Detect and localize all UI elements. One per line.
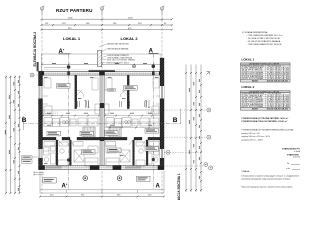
table LOKAL 2 xyxy=(241,90,291,110)
bottom dimension line xyxy=(39,195,165,198)
right dim arrow xyxy=(207,72,210,75)
top wall pier left corner xyxy=(39,71,45,75)
terrace label box L xyxy=(43,178,57,183)
svg-text:3,50 3,50 3,50: 3,50 3,50 3,50 xyxy=(267,68,290,70)
room label box 2.1 xyxy=(124,86,138,91)
room label box 1.5 xyxy=(82,150,96,155)
partition L2 bath b xyxy=(146,140,148,165)
wardrobe L1 xyxy=(74,146,98,162)
corner steps xyxy=(34,171,44,176)
porch dashed eave line xyxy=(41,69,161,71)
left grid bubble xyxy=(30,73,34,77)
bay dashed rows xyxy=(43,112,160,116)
interior clutter extra xyxy=(43,96,161,166)
downspout xyxy=(37,62,39,71)
svg-text:LOKAL 1: LOKAL 1 xyxy=(242,57,255,61)
drain circle xyxy=(132,65,135,68)
svg-text:OGRODZENIE WYS. 180cm: OGRODZENIE WYS. 180cm xyxy=(106,63,130,65)
right wall window 1 xyxy=(160,86,164,99)
hall clutter L2 xyxy=(106,78,159,97)
svg-text:poniżej 140 cm - 0%: poniżej 140 cm - 0% xyxy=(242,133,260,135)
partition L2 entry xyxy=(127,75,129,108)
top dimension line 1 xyxy=(41,17,173,20)
table LOKAL 1 xyxy=(241,63,291,83)
svg-text:RZUT PARTERU: RZUT PARTERU xyxy=(56,8,92,13)
axis dashed line 2 xyxy=(101,15,103,71)
right exterior wall xyxy=(160,71,164,170)
fence callout xyxy=(99,43,136,65)
stairs L2 xyxy=(109,127,121,137)
bottom wall section dot A' xyxy=(67,158,70,161)
svg-text:0.2 P1 HOL: 0.2 P1 HOL xyxy=(242,70,263,72)
grid flag axis 1 xyxy=(40,6,44,15)
bottom wall pier party L xyxy=(90,165,100,170)
svg-text:24,60 24,60 24,60: 24,60 24,60 24,60 xyxy=(267,102,290,104)
svg-text:7,20 7,20 7,20: 7,20 7,20 7,20 xyxy=(267,98,290,100)
right porch wall stub xyxy=(160,58,164,71)
axis dashed line 3 xyxy=(161,15,163,60)
bathroom fixtures L2 xyxy=(147,146,159,164)
terrace column R xyxy=(117,176,122,181)
bottom exterior wall window band xyxy=(39,165,165,170)
hall clutter L1 xyxy=(44,78,98,97)
interior hall line L2 xyxy=(104,109,160,111)
top wall joint A' xyxy=(67,71,70,75)
bottom wall sill bar L xyxy=(46,166,62,168)
door arrows L2 xyxy=(145,100,150,108)
terrace column L xyxy=(83,176,88,181)
top wall pier party xyxy=(99,71,105,75)
section line A' xyxy=(68,55,70,191)
svg-text:4,30 4,30 4,30: 4,30 4,30 4,30 xyxy=(267,78,290,80)
svg-text:5,10 5,10 5,10: 5,10 5,10 5,10 xyxy=(267,76,290,78)
room label box 1.3 xyxy=(80,131,94,136)
svg-text:powyżej 220 cm - 100%: powyżej 220 cm - 100% xyxy=(242,139,263,141)
svg-text:ELEWACJA BOCZNA 1: ELEWACJA BOCZNA 1 xyxy=(177,173,181,200)
wall note box xyxy=(104,89,116,92)
stairs L1 xyxy=(83,127,95,137)
svg-text:4,30 4,30 4,30: 4,30 4,30 4,30 xyxy=(267,106,290,108)
interior dim string L1 xyxy=(42,115,100,117)
partition L1 entry xyxy=(75,75,77,108)
axis dashed line 1 xyxy=(41,15,43,71)
interior hall line L1 xyxy=(43,109,101,111)
kitchen counter L2 xyxy=(106,118,159,127)
porch lintel bar xyxy=(89,70,116,72)
svg-text:LOKAL 2: LOKAL 2 xyxy=(121,36,139,41)
interior dim ticks row xyxy=(78,101,147,107)
left outside label box a xyxy=(22,156,39,159)
svg-text:24,60 24,60 24,60: 24,60 24,60 24,60 xyxy=(267,74,290,76)
bottom wall sill bar R xyxy=(125,166,141,168)
svg-text:7,20 7,20 7,20: 7,20 7,20 7,20 xyxy=(267,70,290,72)
terrace label box R xyxy=(137,176,151,181)
party wall xyxy=(100,75,104,165)
bottom wall section dot A xyxy=(152,158,155,161)
left exterior wall xyxy=(39,71,43,170)
interior mid wall L2 xyxy=(104,137,127,140)
top wall pier right corner xyxy=(159,71,164,75)
bottom wall pier party R xyxy=(113,165,122,170)
section A marker top xyxy=(149,49,159,55)
room label box 2.3 xyxy=(145,129,159,134)
kitchen counter L1 xyxy=(44,118,98,127)
interior mid wall L1 xyxy=(43,137,57,140)
bottom wall pier left corner xyxy=(39,165,45,170)
svg-text:ELEWACJA BOCZNA 2: ELEWACJA BOCZNA 2 xyxy=(33,32,37,67)
section line A xyxy=(152,54,154,190)
left outside label box b xyxy=(22,160,33,163)
svg-text:- 24 CM BLOCZEK Z BETONU KOM: - 24 CM BLOCZEK Z BETONU KOM. xyxy=(247,38,281,40)
room label box 2.4 xyxy=(145,147,159,152)
svg-text:LOKAL 1: LOKAL 1 xyxy=(63,36,81,41)
svg-text:3,50 3,50 3,50: 3,50 3,50 3,50 xyxy=(267,95,290,97)
svg-text:9,80 9,80 9,80: 9,80 9,80 9,80 xyxy=(267,100,290,102)
porch canopy outline xyxy=(41,54,161,71)
top exterior wall window band xyxy=(39,71,165,75)
area summary lines xyxy=(242,117,294,141)
wardrobe L2 xyxy=(106,146,130,162)
right grid bubbles xyxy=(207,108,211,112)
stamp STAROSTWO xyxy=(282,147,311,170)
interior dim string L2 xyxy=(104,115,162,117)
top dimension line 2 xyxy=(41,23,173,26)
top wall joint A xyxy=(152,71,155,75)
right notes list xyxy=(242,31,283,46)
room label box 1.4 xyxy=(108,148,122,153)
svg-text:między 140 cm a 220 cm - 50 %: między 140 cm a 220 cm - 50 % xyxy=(242,136,271,138)
left wall window 1 xyxy=(39,86,43,99)
room label box 1.1 xyxy=(57,84,71,89)
section line B-B xyxy=(23,122,181,124)
room label box 1.2 xyxy=(47,131,61,136)
section A' marker top xyxy=(59,49,71,56)
partition L1 bath b xyxy=(70,140,72,165)
svg-text:0.2 P1 HOL: 0.2 P1 HOL xyxy=(242,98,263,100)
partition L2 bath a xyxy=(133,140,135,165)
svg-text:B: B xyxy=(173,117,178,124)
axis dashed below plan xyxy=(41,171,43,194)
right dim numbers xyxy=(189,79,200,179)
room label box 2.2 xyxy=(105,131,119,136)
interior dim text marks xyxy=(44,77,159,164)
grid flag axis 3 xyxy=(160,6,164,15)
terrace outline xyxy=(40,171,164,193)
left dim numbers xyxy=(5,80,19,191)
svg-text:LOKAL 2: LOKAL 2 xyxy=(242,85,255,89)
door arrows L1 xyxy=(85,100,90,108)
svg-text:A: A xyxy=(156,184,161,190)
right dim column lines xyxy=(186,65,201,193)
bottom wall pier right corner xyxy=(158,165,164,170)
top dimension line 3 xyxy=(41,28,173,31)
svg-text:5,10 5,10 5,10: 5,10 5,10 5,10 xyxy=(267,104,290,106)
left wall window 2 xyxy=(39,149,43,158)
porch fence at party axis xyxy=(98,51,102,67)
svg-text:B: B xyxy=(22,117,27,124)
note UWAGA xyxy=(242,170,300,189)
grid flag axis 2 xyxy=(100,6,104,15)
svg-text:9,80 9,80 9,80: 9,80 9,80 9,80 xyxy=(267,72,290,74)
svg-text:z dn.: z dn. xyxy=(286,168,291,170)
partition L1 bath a xyxy=(56,140,58,165)
left dim column lines xyxy=(6,76,20,194)
porch dimension line xyxy=(41,63,163,68)
bathroom fixtures L1 xyxy=(44,146,56,164)
right wall window 2 xyxy=(160,149,164,158)
interior dim string 2 xyxy=(105,127,160,129)
